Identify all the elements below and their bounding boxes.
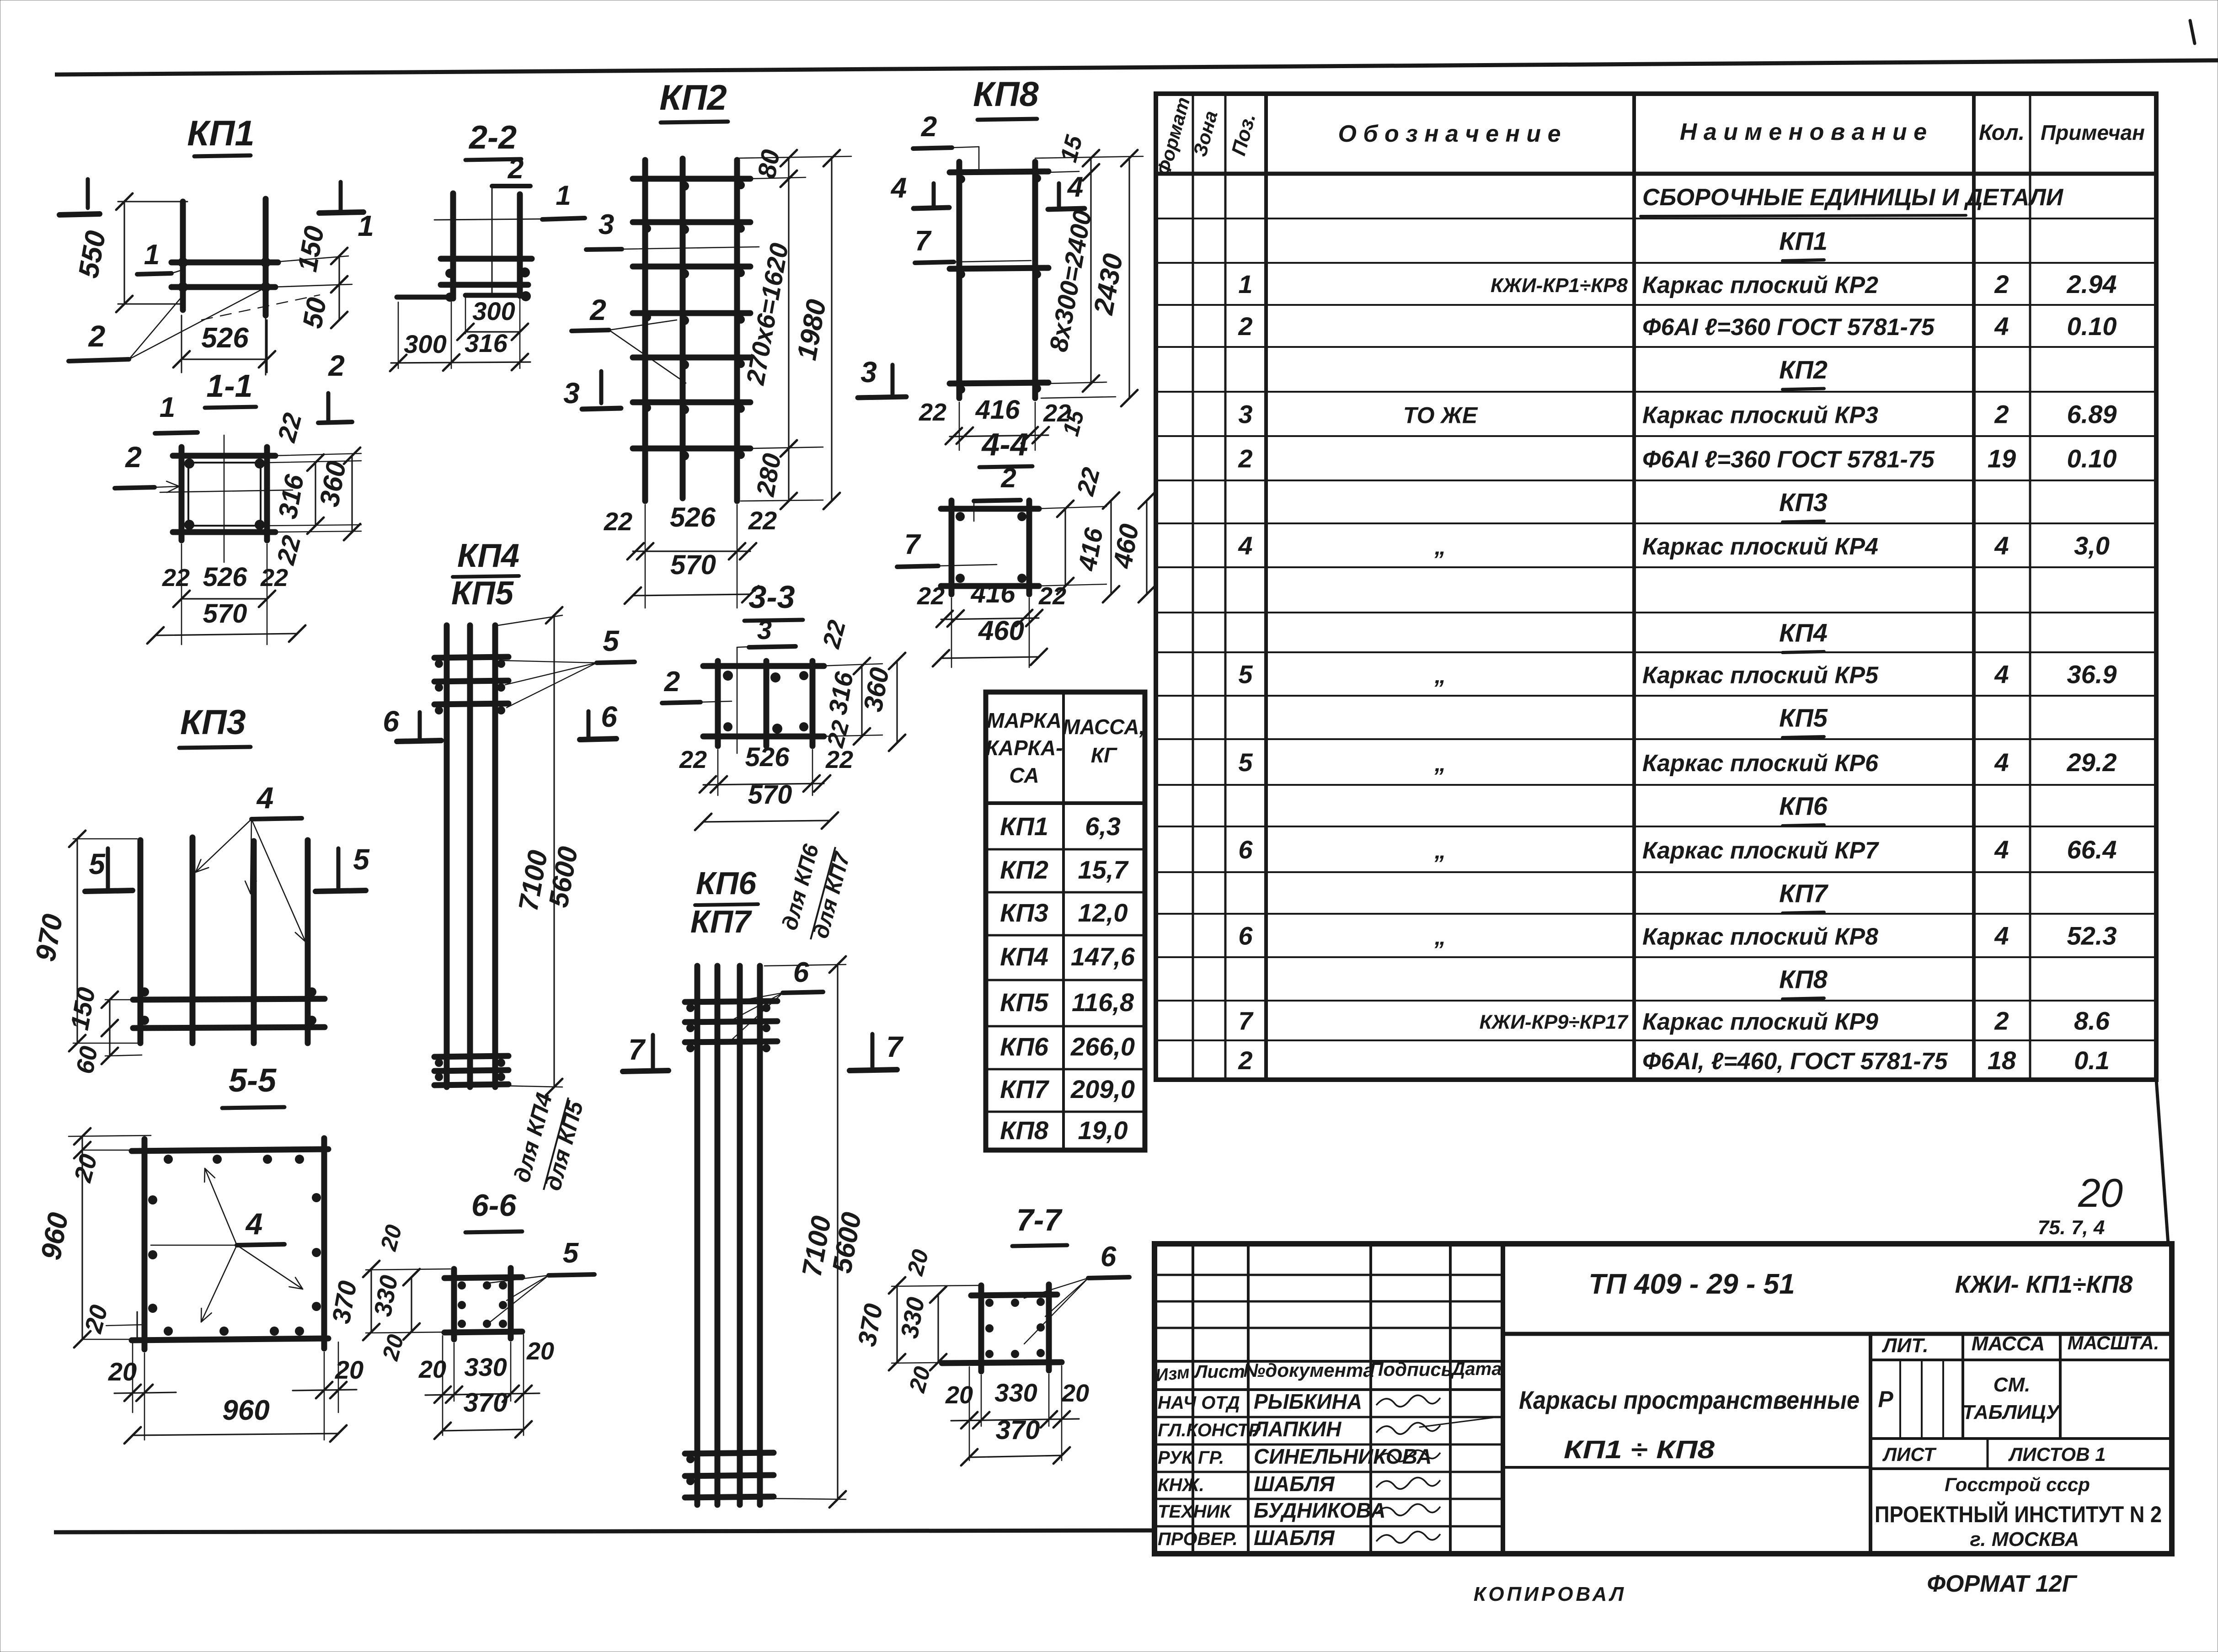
svg-text:416: 416: [975, 395, 1021, 425]
svg-text:7: 7: [904, 529, 921, 560]
4-4 dimensions 416 460 right: [1064, 509, 1066, 586]
svg-text:6: 6: [793, 957, 809, 988]
svg-text:Ф6АI, ℓ=460, ГОСТ 5781-75: Ф6АI, ℓ=460, ГОСТ 5781-75: [1642, 1048, 1948, 1075]
svg-text:15: 15: [1055, 132, 1088, 165]
svg-text:КП5: КП5: [1000, 988, 1049, 1017]
svg-text:570: 570: [203, 599, 247, 629]
title block left part upper rows: [1154, 1274, 1503, 1276]
svg-text:3: 3: [563, 377, 580, 410]
svg-text:СБОРОЧНЫЕ ЕДИНИЦЫ И ДЕТАЛИ: СБОРОЧНЫЕ ЕДИНИЦЫ И ДЕТАЛИ: [1642, 184, 2064, 211]
KP4 dimension line 7100 5600: [498, 615, 562, 625]
svg-text:„: „: [1434, 838, 1446, 863]
KP8 dimension 8x300=2400: [1090, 172, 1091, 384]
page corner tick top right: [2190, 21, 2195, 43]
svg-text:КП4: КП4: [457, 538, 519, 574]
svg-text:52.3: 52.3: [2067, 922, 2117, 950]
svg-text:5: 5: [1238, 748, 1253, 777]
KP3 dimension 150: [105, 999, 137, 1001]
5-5 bottom bar: [132, 1338, 328, 1340]
svg-text:НАЧ ОТД: НАЧ ОТД: [1158, 1393, 1240, 1413]
svg-text:Госстрой ссср: Госстрой ссср: [1945, 1474, 2090, 1495]
svg-text:КП7: КП7: [1000, 1075, 1050, 1103]
title block name rows: [1154, 1416, 1503, 1418]
svg-text:КП2: КП2: [659, 77, 727, 117]
svg-text:6.89: 6.89: [2067, 400, 2117, 429]
svg-text:20: 20: [80, 1302, 113, 1337]
page bottom border left segment: [54, 1530, 1152, 1532]
svg-text:360: 360: [314, 458, 352, 509]
svg-text:526: 526: [745, 742, 790, 772]
svg-text:460: 460: [978, 615, 1024, 646]
svg-text:РУК ГР.: РУК ГР.: [1158, 1448, 1224, 1468]
svg-text:18: 18: [1988, 1046, 2016, 1075]
svg-text:416: 416: [971, 579, 1016, 608]
svg-text:ЛИСТОВ 1: ЛИСТОВ 1: [2008, 1444, 2106, 1465]
5-5 top bar: [132, 1149, 328, 1151]
svg-text:22: 22: [1072, 465, 1106, 499]
KP1 vertical bar right: [263, 199, 269, 315]
svg-text:1: 1: [556, 180, 571, 211]
svg-text:„: „: [1434, 534, 1446, 560]
svg-text:Примечан: Примечан: [2041, 121, 2145, 144]
svg-text:6: 6: [1238, 922, 1253, 950]
6-6 dimension 330 20 left: [411, 1277, 412, 1332]
svg-text:Каркас плоский КР5: Каркас плоский КР5: [1642, 662, 1879, 689]
svg-text:116,8: 116,8: [1072, 988, 1134, 1017]
spec table header bottom line: [1156, 172, 2156, 176]
svg-text:КНЖ.: КНЖ.: [1158, 1475, 1204, 1495]
title block list row: [1871, 1437, 2172, 1440]
svg-text:20: 20: [108, 1357, 137, 1386]
svg-text:570: 570: [748, 780, 792, 810]
3-3 bottom dimensions 22 526 22: [717, 750, 719, 795]
svg-text:ЛАПКИН: ЛАПКИН: [1252, 1417, 1341, 1441]
svg-text:КП2: КП2: [1000, 855, 1048, 884]
svg-text:КП2: КП2: [1779, 355, 1828, 384]
svg-text:2: 2: [589, 293, 606, 326]
4-4 bottom bar: [941, 583, 1039, 589]
svg-text:20: 20: [945, 1381, 973, 1409]
svg-text:36.9: 36.9: [2067, 660, 2117, 689]
svg-text:ГЛ.КОНСТР: ГЛ.КОНСТР: [1158, 1420, 1261, 1440]
1-1 bottom bar: [173, 529, 275, 535]
svg-text:2.94: 2.94: [2067, 270, 2117, 298]
svg-text:6,3: 6,3: [1085, 812, 1121, 841]
svg-text:Каркас плоский КР8: Каркас плоский КР8: [1642, 924, 1878, 950]
2-2 cut line vertical: [492, 185, 493, 294]
KP2 vertical bars: [642, 160, 648, 501]
svg-text:20: 20: [69, 1151, 103, 1186]
svg-text:6: 6: [1101, 1241, 1117, 1273]
svg-text:316: 316: [465, 329, 508, 357]
KP6 dimension 7100 5600: [764, 965, 846, 966]
title block divider under title cell: [1503, 1466, 1871, 1469]
svg-text:22: 22: [917, 582, 945, 610]
KP1 dimension 526: [181, 315, 182, 373]
title block outer frame: [1154, 1244, 2172, 1554]
spec table row lines: [1156, 218, 2156, 219]
svg-text:2: 2: [1000, 463, 1016, 493]
svg-text:2: 2: [1994, 1007, 2009, 1035]
svg-text:КЖИ- КП1÷КП8: КЖИ- КП1÷КП8: [1955, 1271, 2133, 1298]
svg-text:БУДНИКОВА: БУДНИКОВА: [1254, 1498, 1386, 1522]
svg-text:2: 2: [1994, 270, 2009, 298]
1-1 inner stirrup: [188, 463, 261, 526]
svg-text:КП7: КП7: [690, 904, 752, 939]
page right border connector: [2156, 1080, 2168, 1244]
6-6 dimension 370 left: [366, 1269, 450, 1270]
svg-text:5: 5: [563, 1237, 579, 1269]
svg-text:7: 7: [915, 225, 932, 257]
svg-text:Каркас плоский КР3: Каркас плоский КР3: [1642, 402, 1878, 429]
svg-text:7: 7: [1238, 1007, 1254, 1035]
2-2 horizontal bar 1: [441, 256, 532, 262]
svg-text:„: „: [1434, 924, 1446, 950]
svg-text:ТО ЖЕ: ТО ЖЕ: [1403, 403, 1478, 428]
svg-text:КП4: КП4: [1779, 618, 1828, 647]
svg-text:„: „: [1434, 751, 1446, 776]
KP1 section mark 1 right: [339, 182, 343, 210]
svg-text:22: 22: [919, 399, 946, 426]
svg-text:460: 460: [1107, 522, 1144, 571]
svg-text:ПРОЕКТНЫЙ ИНСТИТУТ N 2: ПРОЕКТНЫЙ ИНСТИТУТ N 2: [1875, 1501, 2162, 1527]
KP1 thin extension lines: [118, 201, 187, 203]
svg-text:ПРОВЕР.: ПРОВЕР.: [1158, 1529, 1238, 1549]
svg-text:Н а и м е н о в а н и е: Н а и м е н о в а н и е: [1680, 119, 1927, 145]
svg-text:ЛИСТ: ЛИСТ: [1882, 1444, 1937, 1465]
svg-text:150: 150: [65, 985, 101, 1032]
7-7 bottom bar: [942, 1362, 1062, 1363]
5-5 bottom dimensions: [144, 1353, 145, 1440]
KP4 rebar dots: [435, 660, 443, 668]
svg-text:370: 370: [326, 1279, 362, 1326]
svg-text:2: 2: [328, 349, 345, 382]
KP1 dimension 150: [338, 256, 340, 284]
5-5 rebar dots: [164, 1155, 173, 1164]
svg-text:ТП 409 - 29 - 51: ТП 409 - 29 - 51: [1588, 1268, 1795, 1300]
3-3 top bar: [703, 663, 824, 669]
svg-text:Каркас плоский КР2: Каркас плоский КР2: [1642, 272, 1878, 298]
KP6 rebar dots: [686, 1004, 695, 1012]
svg-text:370: 370: [464, 1388, 508, 1418]
svg-text:20: 20: [902, 1247, 934, 1278]
svg-text:2: 2: [1994, 400, 2009, 429]
svg-text:22: 22: [260, 564, 288, 592]
title block left part verticals: [1192, 1244, 1194, 1554]
svg-text:4-4: 4-4: [981, 426, 1028, 462]
4-4 right bar: [1026, 501, 1032, 594]
1-1 dimension 316/360: [315, 463, 316, 526]
svg-text:КП8: КП8: [973, 75, 1039, 114]
7-7 dimension 370 left: [892, 1285, 978, 1286]
svg-text:5: 5: [89, 847, 106, 880]
KP2 dimension 1980: [831, 158, 832, 501]
KP3 dimension 60: [109, 1028, 110, 1056]
svg-text:7: 7: [628, 1033, 646, 1066]
svg-text:15,7: 15,7: [1078, 855, 1129, 884]
6-6 bottom dimensions 20 330 20: [454, 1343, 455, 1401]
KP6 vertical bars: [695, 966, 700, 1505]
5-5 dimension 20 bottom left: [136, 1312, 138, 1339]
svg-text:5-5: 5-5: [229, 1062, 277, 1099]
svg-text:29.2: 29.2: [2067, 748, 2117, 777]
svg-text:2: 2: [508, 153, 524, 185]
KP3 rebar hooks: [140, 987, 149, 997]
svg-text:5: 5: [1238, 660, 1253, 689]
svg-text:4: 4: [1994, 312, 2009, 341]
svg-text:330: 330: [369, 1273, 403, 1318]
3-3 vertical bars: [715, 661, 721, 746]
svg-text:8.6: 8.6: [2074, 1007, 2110, 1035]
svg-text:4: 4: [1994, 835, 2009, 864]
svg-text:6: 6: [383, 705, 399, 738]
title block lit cells: [1961, 1334, 1964, 1439]
KP1 bar hook dots: [178, 257, 188, 267]
KP1 horizontal bar 1: [171, 260, 278, 266]
svg-text:СИНЕЛЬНИКОВА: СИНЕЛЬНИКОВА: [1254, 1444, 1432, 1468]
spec table outer frame: [1156, 94, 2156, 1080]
svg-text:1: 1: [358, 209, 374, 242]
KP1 dimension 550: [123, 202, 125, 304]
2-2 extension lines: [398, 302, 399, 368]
svg-text:526: 526: [201, 322, 249, 354]
svg-text:4: 4: [1994, 922, 2009, 950]
svg-text:330: 330: [896, 1295, 930, 1340]
svg-text:370: 370: [852, 1301, 888, 1348]
svg-text:Каркас плоский КР6: Каркас плоский КР6: [1642, 750, 1879, 777]
KP6 bottom rungs: [685, 1453, 774, 1454]
signature flick line: [1420, 1416, 1504, 1427]
svg-text:2: 2: [125, 441, 142, 474]
svg-text:4: 4: [256, 781, 274, 815]
svg-text:КП6: КП6: [1000, 1032, 1049, 1061]
6-6 dimension 370 bottom: [443, 1429, 524, 1431]
svg-text:22: 22: [748, 506, 777, 535]
3-3 rebar dots: [723, 671, 733, 681]
2-2 bottom right bar: [465, 293, 526, 298]
svg-text:0.10: 0.10: [2067, 312, 2117, 341]
title block left/right divider: [1501, 1244, 1505, 1554]
2-2 vertical bar left: [450, 193, 456, 298]
svg-text:3: 3: [1238, 400, 1252, 429]
svg-text:8х300=2400: 8х300=2400: [1044, 208, 1097, 354]
title block line under TP row: [1503, 1332, 2172, 1336]
title block vertical divider lit: [1869, 1334, 1872, 1554]
mass table middle vertical: [1062, 692, 1065, 1150]
4-4 dimension 460 bottom: [941, 657, 1039, 658]
3-3 cut thin line: [737, 647, 738, 753]
svg-text:2430: 2430: [1088, 251, 1128, 317]
svg-text:22: 22: [818, 618, 851, 652]
svg-text:2: 2: [664, 666, 680, 698]
svg-text:КАРКА-: КАРКА-: [986, 736, 1063, 760]
2-2 vertical bar right: [517, 194, 523, 296]
svg-text:416: 416: [1072, 525, 1108, 573]
svg-text:20: 20: [2078, 1170, 2123, 1215]
KP3 vertical bars: [138, 840, 144, 1043]
svg-text:ШАБЛЯ: ШАБЛЯ: [1254, 1526, 1335, 1550]
svg-text:960: 960: [222, 1395, 269, 1426]
2-2 horizontal bar 2: [441, 282, 528, 288]
6-6 top bar: [444, 1277, 522, 1278]
1-1 right bar: [264, 447, 270, 540]
svg-text:4: 4: [890, 172, 907, 204]
KP4 top rungs: [434, 657, 508, 658]
svg-text:КП1: КП1: [1779, 227, 1828, 256]
svg-text:570: 570: [670, 549, 716, 580]
svg-text:4: 4: [1994, 531, 2009, 560]
svg-text:280: 280: [750, 451, 786, 499]
5-5 dimension 960 left: [82, 1150, 137, 1151]
5-5 dimension 20 top left: [69, 1135, 151, 1136]
svg-text:550: 550: [73, 229, 112, 281]
svg-text:МАССА: МАССА: [1972, 1332, 2045, 1355]
svg-text:Ф6АI ℓ=360 ГОСТ 5781-75: Ф6АI ℓ=360 ГОСТ 5781-75: [1642, 314, 1935, 341]
svg-text:КЖИ-КР1÷КР8: КЖИ-КР1÷КР8: [1491, 274, 1628, 297]
svg-text:КП3: КП3: [180, 703, 246, 742]
svg-text:66.4: 66.4: [2067, 835, 2117, 864]
svg-text:370: 370: [996, 1415, 1040, 1445]
svg-text:2: 2: [921, 111, 937, 143]
svg-text:Подпись: Подпись: [1369, 1359, 1452, 1380]
svg-text:150: 150: [292, 224, 330, 274]
svg-text:2-2: 2-2: [468, 119, 517, 156]
svg-text:Формат: Формат: [1153, 95, 1194, 178]
svg-text:РЫБКИНА: РЫБКИНА: [1254, 1390, 1362, 1413]
svg-text:22: 22: [272, 410, 307, 445]
svg-text:КП5: КП5: [451, 575, 514, 612]
1-1 cut thin lines: [224, 435, 225, 562]
svg-text:Каркасы пространственные: Каркасы пространственные: [1519, 1386, 1860, 1414]
svg-text:316: 316: [273, 472, 310, 521]
svg-text:266,0: 266,0: [1070, 1032, 1135, 1061]
svg-text:Изм: Изм: [1155, 1363, 1191, 1386]
svg-text:300: 300: [404, 330, 446, 358]
KP3 dimension 970: [73, 838, 137, 840]
svg-text:КП8: КП8: [1779, 965, 1828, 994]
svg-text:0.1: 0.1: [2074, 1046, 2110, 1075]
svg-text:КГ: КГ: [1091, 743, 1117, 767]
mass table frame: [986, 692, 1145, 1150]
KP2 dimension 270x6=1620: [788, 179, 789, 448]
svg-text:Каркас плоский КР4: Каркас плоский КР4: [1642, 533, 1878, 560]
svg-text:22: 22: [271, 533, 306, 568]
2-2 dimension 300 316 lower: [391, 362, 530, 363]
3-3 bottom bar: [703, 734, 824, 740]
KP2 rungs: [633, 176, 750, 182]
7-7 rebar dots: [985, 1299, 994, 1307]
KP4 vertical bars: [444, 625, 450, 1087]
svg-text:СМ.: СМ.: [1994, 1374, 2031, 1396]
KP2 rebar dots: [680, 181, 689, 191]
svg-text:960: 960: [35, 1210, 75, 1263]
svg-text:Кол.: Кол.: [1979, 121, 2025, 145]
svg-text:1980: 1980: [791, 297, 832, 362]
3-3 dimension 570: [703, 821, 830, 822]
svg-text:КП8: КП8: [1000, 1116, 1049, 1145]
svg-text:Ф6АI ℓ=360 ГОСТ 5781-75: Ф6АI ℓ=360 ГОСТ 5781-75: [1642, 447, 1935, 473]
svg-text:КП6: КП6: [696, 865, 757, 901]
svg-text:526: 526: [670, 502, 716, 533]
svg-text:КП7: КП7: [1779, 879, 1829, 908]
4-4 rebar dots: [956, 512, 965, 521]
KP2 dimension 280: [788, 448, 789, 501]
svg-text:6-6: 6-6: [471, 1188, 517, 1223]
svg-text:5: 5: [353, 843, 370, 876]
svg-text:4: 4: [1994, 660, 2009, 689]
KP1 horizontal bar 2: [171, 284, 275, 290]
svg-text:60: 60: [71, 1044, 103, 1076]
2-2 dimension 300 upper: [465, 331, 520, 332]
spec row underline 1: [1641, 215, 1966, 216]
svg-text:МАРКА: МАРКА: [987, 709, 1062, 732]
svg-text:КП1: КП1: [1000, 812, 1048, 841]
4-4 top bar: [941, 506, 1039, 512]
KP1 vertical bar right thin extension: [265, 315, 267, 375]
svg-text:СА: СА: [1009, 763, 1039, 787]
KP2 dimension 570: [633, 594, 750, 596]
svg-text:7-7: 7-7: [1016, 1203, 1063, 1237]
page top border: [55, 60, 2218, 75]
svg-text:2: 2: [1238, 312, 1252, 341]
svg-text:5: 5: [603, 624, 620, 657]
KP8 vertical bars: [957, 162, 962, 398]
svg-text:19: 19: [1988, 444, 2016, 473]
svg-text:970: 970: [30, 912, 69, 964]
svg-text:КП6: КП6: [1779, 792, 1828, 821]
svg-text:22: 22: [162, 564, 190, 592]
svg-text:4: 4: [1994, 748, 2009, 777]
svg-text:„: „: [1434, 663, 1446, 688]
5-5 right bar: [321, 1138, 327, 1348]
svg-text:1: 1: [1238, 270, 1252, 298]
7-7 dimension 330 20 left: [937, 1295, 939, 1362]
svg-text:20: 20: [526, 1338, 554, 1365]
2-2 cut line 1 horizontal: [434, 219, 542, 220]
svg-text:4: 4: [1238, 531, 1252, 560]
7-7 bottom dimensions 20 330 20: [981, 1375, 982, 1426]
svg-text:4: 4: [1067, 171, 1083, 203]
svg-text:80: 80: [752, 147, 785, 180]
KP4 bottom rungs: [434, 1056, 508, 1057]
KP8 bottom dimensions 22 416 22 15: [959, 402, 960, 450]
svg-text:ШАБЛЯ: ШАБЛЯ: [1254, 1472, 1335, 1496]
svg-text:Лист: Лист: [1193, 1362, 1245, 1382]
svg-text:360: 360: [858, 665, 895, 714]
svg-text:г. МОСКВА: г. МОСКВА: [1970, 1528, 2079, 1551]
svg-text:КЖИ-КР9÷КР17: КЖИ-КР9÷КР17: [1480, 1011, 1629, 1034]
svg-text:330: 330: [464, 1353, 507, 1381]
KP3 horizontal bars: [133, 999, 325, 1000]
KP6 top rungs: [685, 1001, 777, 1002]
svg-text:20: 20: [335, 1355, 363, 1384]
svg-text:Р: Р: [1878, 1386, 1893, 1412]
2-2 bottom left ledge bar: [397, 295, 452, 300]
svg-text:22: 22: [604, 507, 632, 536]
title block header row line: [1154, 1360, 1503, 1363]
1-1 dimension 570 bottom: [155, 634, 297, 635]
KP2 top extension lines: [737, 156, 851, 158]
svg-text:Каркас плоский КР9: Каркас плоский КР9: [1642, 1009, 1878, 1035]
svg-text:КОПИРОВАЛ: КОПИРОВАЛ: [1474, 1583, 1626, 1605]
title block signatures: [1376, 1395, 1440, 1407]
KP1 vertical bar left: [180, 202, 186, 310]
svg-text:7: 7: [886, 1030, 904, 1063]
7-7 left bar: [978, 1285, 984, 1371]
svg-text:50: 50: [297, 295, 332, 330]
svg-text:Каркас плоский КР7: Каркас плоский КР7: [1642, 837, 1879, 864]
svg-text:209,0: 209,0: [1070, 1075, 1135, 1103]
